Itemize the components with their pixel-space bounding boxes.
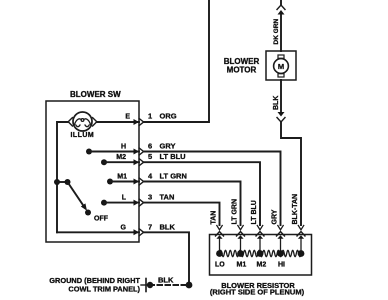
svg-text:M1: M1 [117, 174, 127, 181]
svg-text:L: L [122, 195, 127, 202]
connector resistor LT BLU [256, 226, 264, 251]
svg-text:DK GRN: DK GRN [273, 19, 280, 45]
wire H [89, 151, 139, 153]
wire lamp right to E terminal [97, 121, 139, 123]
tap dot BLK-TAN end [298, 250, 305, 257]
connector inline BLK [277, 112, 285, 122]
wire common to pivot [57, 181, 68, 183]
svg-text:HI: HI [278, 261, 285, 268]
svg-text:TAN: TAN [211, 211, 218, 225]
svg-text:GRY: GRY [272, 209, 279, 224]
svg-text:OFF: OFF [94, 216, 109, 223]
svg-text:3TAN: 3TAN [148, 193, 174, 202]
ground splice dot [186, 282, 193, 289]
wire M1 [110, 181, 139, 183]
svg-text:(RIGHT SIDE OF PLENUM): (RIGHT SIDE OF PLENUM) [210, 288, 305, 297]
svg-text:M2: M2 [116, 154, 126, 161]
blower resistor box [210, 235, 312, 276]
wire BLK-TAN [281, 122, 301, 225]
wire GRY [144, 152, 281, 226]
junction dot common [54, 179, 60, 185]
svg-text:M1: M1 [237, 261, 247, 268]
svg-text:E: E [125, 114, 130, 121]
contact dot L [101, 200, 107, 206]
svg-text:M: M [278, 62, 284, 71]
svg-text:BLOWER SW: BLOWER SW [70, 90, 121, 99]
connector terminal L [134, 199, 144, 206]
label GROUND location [49, 276, 140, 294]
connector resistor GRY [277, 226, 285, 251]
svg-text:G: G [121, 225, 127, 232]
connector terminal E [134, 119, 144, 126]
connector resistor BLK-TAN [297, 226, 305, 251]
svg-text:LT GRN: LT GRN [232, 199, 239, 225]
lamp ILLUM [68, 112, 97, 131]
wire BLK to ground [144, 232, 189, 282]
svg-text:MOTOR: MOTOR [227, 66, 257, 75]
connector terminal H [134, 148, 144, 155]
svg-text:BLK-TAN: BLK-TAN [292, 194, 299, 225]
svg-text:M2: M2 [257, 261, 267, 268]
svg-text:BLK: BLK [158, 276, 174, 285]
blower motor M [266, 51, 296, 80]
svg-text:LO: LO [215, 261, 225, 268]
tap dot HI [277, 250, 284, 257]
wire M2 [104, 161, 139, 163]
tap dot M1 [237, 250, 244, 257]
connector terminal M2 [134, 159, 144, 166]
svg-text:ILLUM: ILLUM [71, 132, 95, 139]
svg-text:COWL TRIM PANEL): COWL TRIM PANEL) [68, 285, 140, 294]
connector resistor TAN [216, 226, 224, 251]
wire DK GRN [280, 15, 282, 52]
wire TAN [144, 203, 220, 225]
contact dot M1 [107, 179, 113, 185]
pivot dot [65, 179, 71, 185]
wire L [104, 202, 139, 204]
ground dashed wire [152, 284, 186, 286]
svg-text:BLK: BLK [273, 96, 280, 110]
connector terminal M1 [134, 178, 144, 185]
wire BLK from motor [280, 80, 282, 112]
tap dot LO [216, 250, 223, 257]
wire LT BLU [144, 162, 260, 225]
resistor element coil [220, 250, 302, 256]
svg-text:6GRY: 6GRY [148, 142, 175, 151]
svg-text:H: H [121, 144, 126, 151]
wire LT GRN [144, 182, 241, 226]
label BLOWER MOTOR [224, 57, 260, 75]
wire G internal [57, 231, 139, 233]
wire ORG [144, 0, 209, 122]
tap dot M2 [257, 250, 264, 257]
ground symbol [141, 279, 153, 292]
blower switch box [46, 101, 139, 242]
svg-text:7BLK: 7BLK [148, 223, 175, 232]
wire DK GRN top stub [280, 0, 282, 4]
wire lamp left to common vertical [57, 122, 68, 232]
svg-text:LT BLU: LT BLU [251, 200, 258, 224]
connector inline DK GRN [277, 5, 285, 15]
contact dot M2 [101, 159, 107, 165]
contact dot OFF [85, 210, 91, 216]
connector resistor LT GRN [237, 226, 245, 251]
connector terminal G [134, 229, 144, 236]
switch arm wiper [68, 182, 88, 211]
contact dot H [86, 149, 92, 155]
